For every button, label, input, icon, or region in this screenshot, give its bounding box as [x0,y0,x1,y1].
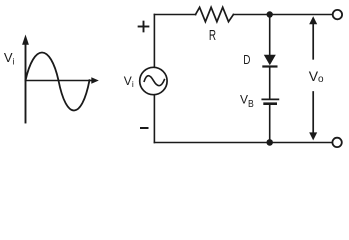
plus sign [139,22,149,32]
svg-text:V: V [240,93,248,107]
diode D cathode bar [263,65,276,67]
svg-text:o: o [318,74,324,85]
source Vi circle [140,67,167,94]
Vi waveform horizontal axis arrowhead [91,77,99,83]
wire top: corner to resistor [154,14,195,16]
label Vi (graph) [4,50,15,67]
battery VB long plate [262,98,278,100]
Vo down arrowhead [309,132,317,140]
label Vi (source) [124,74,134,89]
Vo up arrowhead [309,16,317,24]
label VB [240,93,254,110]
svg-text:R: R [209,27,216,44]
Vi waveform vertical axis arrowhead [22,35,29,45]
wire left vertical bottom [153,95,155,143]
wire bottom [154,142,332,144]
svg-text:i: i [132,79,134,89]
source sine squiggle [144,76,164,86]
svg-text:V: V [124,74,132,88]
wire diode to battery [269,67,271,99]
wire battery to bottom node [269,104,271,143]
Vi waveform sine curve [26,53,90,111]
wire top: resistor to node [233,14,269,16]
node top junction [267,11,273,17]
wire node to diode [269,15,271,56]
node bottom junction [266,139,273,146]
Vi waveform vertical axis [25,44,27,123]
battery VB short plate [265,102,276,105]
minus sign [141,127,148,129]
terminal bottom-right [332,138,341,147]
wire top: node to terminal [270,14,333,16]
svg-text:i: i [13,57,15,67]
Vo up arrow shaft [312,24,314,59]
label Vo [309,68,324,85]
terminal top-right [333,10,342,19]
svg-text:D: D [243,52,250,67]
Vi waveform horizontal axis [26,80,93,82]
Vo down arrow shaft [312,92,314,133]
svg-text:B: B [248,99,254,110]
wire left vertical top [153,15,155,68]
diode D triangle [264,55,276,66]
resistor R [196,7,234,21]
